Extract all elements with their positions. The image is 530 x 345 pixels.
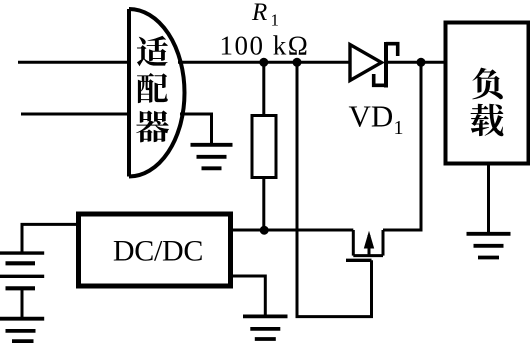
- transistor Q1 drain stub: [382, 230, 385, 256]
- wire input top: [18, 61, 127, 64]
- load label fu: [472, 68, 503, 100]
- wire adapter to ground: [180, 114, 212, 143]
- transistor Q1 arrow: [364, 231, 374, 249]
- ground (load): [467, 234, 511, 258]
- wire transistor drain to node C: [383, 62, 421, 230]
- adapter U2 outline: [129, 9, 185, 177]
- svg-text:100 kΩ: 100 kΩ: [220, 31, 310, 61]
- svg-text:1: 1: [271, 11, 280, 30]
- DC/DC converter box: [79, 214, 231, 286]
- wire DC/DC pin2 to ground: [233, 276, 265, 316]
- adapter label qi: [136, 110, 169, 142]
- wire battery to ground: [21, 288, 24, 319]
- node dot A (R1 top): [259, 58, 268, 67]
- load box: [446, 23, 529, 164]
- adapter label pei: [137, 73, 168, 103]
- svg-text:1: 1: [394, 117, 404, 139]
- ground (adapter): [191, 145, 233, 169]
- svg-text:R: R: [251, 0, 267, 26]
- wire diode cathode to load: [388, 61, 444, 64]
- resistor R1: [252, 116, 276, 178]
- wire load to ground: [487, 164, 490, 234]
- node dot D (R1 bottom on output wire): [260, 226, 269, 235]
- battery B1: [0, 253, 44, 288]
- transistor Q1 channel bar: [353, 254, 383, 257]
- transistor Q1 gate bar: [346, 259, 372, 262]
- wire resistor top lead: [262, 62, 265, 115]
- svg-text:DC/DC: DC/DC: [113, 234, 203, 267]
- transistor Q1 source stub: [353, 230, 383, 256]
- ground (DC/DC pin2): [243, 316, 288, 339]
- node dot C (cathode/load): [417, 58, 426, 67]
- transistor Q1 substrate lead: [368, 235, 371, 256]
- wire resistor bottom lead: [262, 178, 265, 231]
- node dot B (gate branch): [293, 58, 302, 67]
- adapter label shi: [137, 36, 168, 66]
- wire DC/DC input from battery: [22, 224, 78, 253]
- load label zai: [471, 104, 504, 137]
- wire input bottom: [21, 113, 127, 116]
- ground (battery): [0, 319, 44, 341]
- diode VD1 (Schottky): [350, 42, 398, 88]
- svg-text:VD: VD: [349, 99, 394, 134]
- wire DC/DC output to transistor source: [233, 229, 353, 232]
- wire adapter output to diode anode: [178, 61, 350, 64]
- wire gate path: [297, 62, 372, 316]
